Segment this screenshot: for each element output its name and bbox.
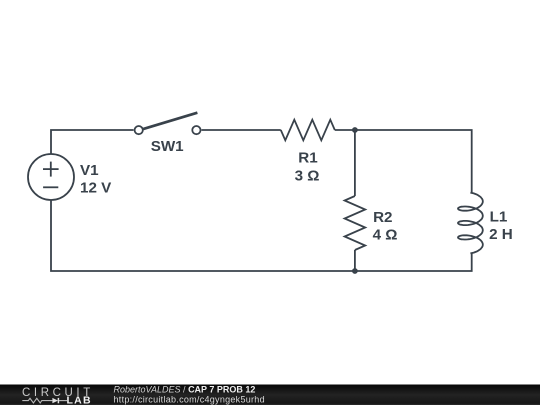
- inductor L1: [458, 193, 483, 254]
- svg-text:SW1: SW1: [151, 138, 184, 155]
- wire node A to top-right corner and down to L1: [355, 130, 472, 193]
- wire V1 bottom down to bottom rail: [51, 200, 355, 271]
- svg-text:R1: R1: [298, 150, 318, 167]
- svg-text:http://circuitlab.com/c4gyngek: http://circuitlab.com/c4gyngek5urhd: [114, 394, 265, 404]
- footer bar: [0, 385, 540, 405]
- node A junction dot: [352, 127, 358, 133]
- wire R2 bottom to bottom rail: [354, 250, 356, 271]
- svg-text:12 V: 12 V: [80, 180, 112, 197]
- svg-text:4 Ω: 4 Ω: [373, 227, 398, 244]
- wire top-left from V1 up to top rail: [51, 130, 134, 154]
- wire bottom node to L1 bottom: [355, 253, 472, 271]
- bottom junction dot: [352, 268, 358, 274]
- resistor R1: [281, 120, 335, 141]
- voltage source V1: [28, 154, 74, 200]
- wire node A down to R2 top: [354, 130, 356, 196]
- svg-text:R2: R2: [373, 209, 392, 226]
- svg-text:RobertoVALDES / CAP 7 PROB 12: RobertoVALDES / CAP 7 PROB 12: [114, 384, 256, 394]
- logo resistor squiggle: [22, 398, 52, 403]
- svg-text:V1: V1: [80, 162, 99, 179]
- svg-text:LAB: LAB: [67, 394, 92, 405]
- wire R1 to node A: [335, 129, 355, 131]
- logo diode: [52, 398, 67, 403]
- wire switch to R1: [202, 129, 281, 131]
- svg-text:3 Ω: 3 Ω: [295, 168, 320, 185]
- svg-text:2 H: 2 H: [489, 226, 513, 243]
- resistor R2: [345, 196, 366, 250]
- svg-text:L1: L1: [490, 208, 508, 225]
- switch SW1: [135, 113, 201, 135]
